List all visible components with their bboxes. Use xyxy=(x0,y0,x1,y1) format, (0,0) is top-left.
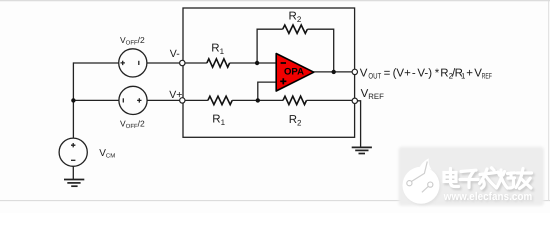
wire plus input tap xyxy=(258,82,276,100)
op-amp model box xyxy=(183,8,355,137)
svg-text:+: + xyxy=(466,67,473,79)
svg-text:=: = xyxy=(384,67,391,79)
svg-text:V-: V- xyxy=(170,48,180,60)
watermark chinese title strokes xyxy=(444,168,533,191)
svg-text:1: 1 xyxy=(461,72,465,81)
watermark background panel xyxy=(399,147,545,206)
svg-text:www.elecfans.com: www.elecfans.com xyxy=(443,191,532,203)
svg-text:R: R xyxy=(440,67,448,79)
wire feedback loop xyxy=(257,29,334,72)
wire output xyxy=(314,71,353,73)
page bottom border xyxy=(0,200,550,202)
page top border xyxy=(0,0,550,2)
svg-text:*: * xyxy=(435,67,440,79)
resistor R1 top xyxy=(207,59,230,67)
watermark url text xyxy=(443,191,534,204)
svg-text:V-): V-) xyxy=(417,67,432,79)
svg-text:(V+: (V+ xyxy=(393,67,412,79)
resistor R2 bottom xyxy=(283,96,307,104)
svg-text:OPA: OPA xyxy=(284,67,304,78)
wire left vertical xyxy=(72,62,74,138)
wire plus row xyxy=(73,99,352,101)
svg-text:V+: V+ xyxy=(169,89,182,101)
label Vout formula xyxy=(360,67,492,80)
page right border xyxy=(548,1,550,201)
svg-text:REF: REF xyxy=(482,72,493,81)
svg-text:OUT: OUT xyxy=(368,72,381,81)
terminal Vref xyxy=(352,98,357,103)
watermark elecfans logo xyxy=(403,158,441,205)
wire minus row xyxy=(73,62,276,64)
svg-text:V: V xyxy=(360,67,368,79)
ground vref xyxy=(352,147,372,153)
source Vcm xyxy=(59,138,87,166)
junction node left xyxy=(71,98,75,102)
junction node minus input xyxy=(255,61,259,65)
source Voff/2 top xyxy=(119,49,147,77)
source Voff/2 bottom xyxy=(119,86,147,114)
wire vcm to ground xyxy=(72,166,74,179)
resistor R2 feedback xyxy=(283,25,308,33)
op-amp OPA xyxy=(276,54,314,92)
terminal Vout xyxy=(352,69,357,74)
terminal V+ xyxy=(180,98,185,103)
wire vref to ground xyxy=(357,101,360,147)
junction node plus input xyxy=(256,98,260,102)
ground vcm xyxy=(64,180,84,187)
resistor R1 bottom xyxy=(208,96,232,104)
svg-text:-: - xyxy=(412,67,416,79)
junction node output xyxy=(332,70,336,74)
terminal V- xyxy=(180,60,185,65)
